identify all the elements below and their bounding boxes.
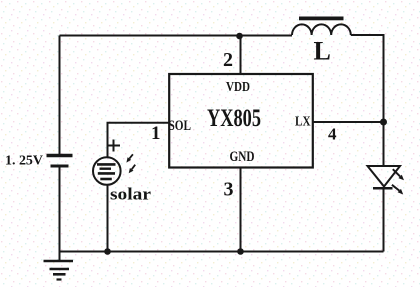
pin label VDD <box>226 80 250 95</box>
wire LED cathode lead <box>383 187 385 252</box>
pin label GND <box>230 149 255 165</box>
node junction pin2/top rail <box>236 33 243 40</box>
wire inductor right lead <box>351 35 384 166</box>
label YX805 <box>207 105 261 132</box>
LED light arrows <box>392 169 404 194</box>
wire pin 3 GND lead <box>240 169 242 252</box>
solar plus sign <box>107 140 120 152</box>
svg-text:SOL: SOL <box>169 118 192 134</box>
solar cell <box>93 157 121 185</box>
svg-text:L: L <box>314 37 331 66</box>
svg-text:1. 25V: 1. 25V <box>5 154 43 169</box>
wire pin 4 LX lead <box>314 121 384 123</box>
svg-text:GND: GND <box>230 149 255 165</box>
battery BT1 <box>47 156 73 167</box>
solar light arrows <box>126 154 135 173</box>
wire battery bottom lead <box>59 168 61 252</box>
svg-text:YX805: YX805 <box>207 105 261 132</box>
wire top rail from battery to inductor <box>60 35 293 37</box>
svg-text:4: 4 <box>328 125 337 144</box>
pin number 1 <box>151 123 161 144</box>
IC U1 YX805 body <box>169 74 313 168</box>
svg-text:LX: LX <box>295 115 311 130</box>
inductor L <box>292 24 351 35</box>
inductor core bar <box>299 17 344 21</box>
node junction solar/bottom rail <box>104 248 111 255</box>
wire ground lead <box>59 252 61 261</box>
node junction pin4/right rail <box>380 119 387 126</box>
label L <box>314 37 331 66</box>
wire solar bottom lead <box>107 185 109 252</box>
label solar <box>110 185 152 204</box>
svg-text:1: 1 <box>151 123 161 144</box>
pin label SOL <box>169 118 192 134</box>
svg-text:VDD: VDD <box>226 80 250 95</box>
wire bottom rail <box>60 251 384 253</box>
ground <box>44 261 74 280</box>
wire pin 2 VDD lead <box>240 36 242 74</box>
pin label LX <box>295 115 311 130</box>
value label 1.25V <box>5 154 43 169</box>
wire battery top lead <box>59 36 61 155</box>
pin number 2 <box>223 49 233 71</box>
svg-text:3: 3 <box>224 179 234 201</box>
LED D1 <box>368 166 401 188</box>
node junction pin3/bottom rail <box>237 248 244 255</box>
pin number 4 <box>328 125 337 144</box>
wire solar top lead and pin 1 connection <box>108 123 170 158</box>
svg-text:2: 2 <box>223 49 233 71</box>
svg-text:solar: solar <box>110 185 152 204</box>
pin number 3 <box>224 179 234 201</box>
